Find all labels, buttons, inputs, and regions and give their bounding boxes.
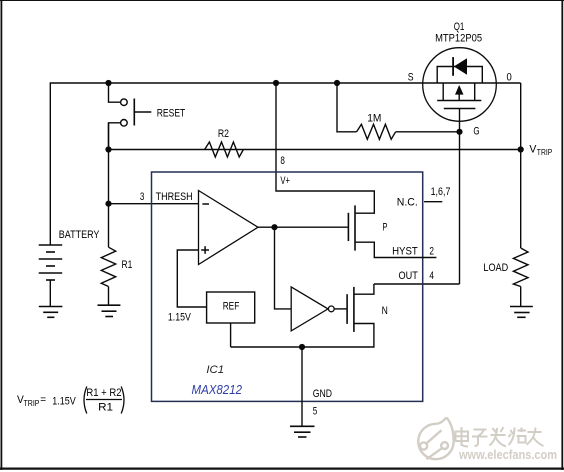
resistor R2 zigzag	[205, 142, 244, 157]
transistor Q1 circle	[423, 48, 497, 122]
transistor P internal	[348, 205, 355, 250]
wire REF to gnd rail	[230, 323, 232, 347]
node G	[456, 129, 462, 135]
svg-text:MAX8212: MAX8212	[192, 382, 243, 397]
svg-text:www.elecfans.com: www.elecfans.com	[458, 448, 557, 462]
svg-text:G: G	[473, 126, 479, 138]
svg-text:BATTERY: BATTERY	[59, 229, 100, 241]
wire P source to HYST	[355, 242, 436, 257]
svg-text:R1 + R2: R1 + R2	[86, 387, 121, 399]
reset switch contact circles	[121, 99, 128, 126]
svg-text:P: P	[383, 222, 388, 234]
wire VTRIP horizontal R2 to LOAD	[109, 149, 521, 151]
wire battery to ground	[49, 280, 51, 306]
comparator minus sign	[202, 203, 209, 205]
svg-text:OUT: OUT	[399, 270, 419, 282]
svg-text:Q1: Q1	[454, 21, 465, 33]
wire OUT pin to gate	[374, 283, 460, 285]
reset switch actuator bar	[133, 99, 135, 126]
node switch top	[105, 80, 111, 86]
IC box MAX8212	[152, 172, 423, 401]
node VTRIP	[518, 146, 524, 152]
N.C. pin stub	[424, 201, 442, 203]
reset switch lower lead	[109, 123, 121, 150]
svg-text:V+: V+	[280, 175, 290, 187]
wire battery+ top rail	[50, 83, 520, 245]
wire VTRIP to LOAD	[520, 150, 522, 249]
svg-text:THRESH: THRESH	[156, 191, 193, 203]
formula VTRIP	[17, 387, 124, 414]
svg-text:1,6,7: 1,6,7	[431, 186, 451, 198]
wire gate vertical G to OUT	[459, 109, 461, 285]
node R2 left	[105, 146, 111, 152]
wire LOAD to ground	[520, 287, 522, 307]
wire left rail THRESH node	[108, 123, 110, 247]
svg-text:GND: GND	[313, 388, 332, 400]
ground GND pin	[290, 426, 315, 437]
wire output to inverter	[275, 227, 292, 309]
svg-text:8: 8	[280, 155, 285, 167]
wire N source to gnd rail	[231, 324, 374, 348]
svg-text:HYST: HYST	[392, 246, 418, 258]
svg-text:N: N	[382, 305, 388, 317]
svg-text:REF: REF	[223, 300, 240, 312]
svg-text:0: 0	[507, 71, 512, 83]
svg-text:S: S	[408, 71, 414, 83]
op-amp U comparator triangle	[199, 191, 259, 265]
wire Q1 drain to VTRIP	[520, 83, 522, 150]
svg-text:1.15V: 1.15V	[52, 396, 76, 408]
REF block	[207, 292, 255, 323]
Q1 body diode	[437, 57, 482, 83]
watermark logo elecfans	[418, 418, 453, 460]
watermark CJK text	[456, 427, 544, 447]
ground LOAD	[510, 307, 533, 318]
svg-text:1M: 1M	[367, 113, 381, 125]
node THRESH	[105, 201, 111, 207]
resistor R1 zigzag	[101, 247, 115, 286]
battery symbol plates	[39, 245, 63, 280]
inverter triangle	[291, 287, 328, 331]
wire N drain to OUT	[354, 284, 374, 294]
ground R1	[98, 305, 121, 316]
svg-text:2: 2	[429, 246, 434, 258]
wire inverter to N gate	[334, 308, 347, 310]
svg-text:4: 4	[429, 270, 434, 282]
svg-text:TRIP: TRIP	[537, 148, 553, 157]
Q1 source arrow	[455, 85, 464, 95]
svg-text:R1: R1	[122, 259, 133, 271]
svg-text:TRIP: TRIP	[24, 399, 40, 408]
transistor N internal	[347, 287, 354, 332]
svg-text:3: 3	[140, 191, 145, 203]
node gnd rail	[299, 344, 305, 350]
svg-text:=: =	[40, 394, 46, 406]
svg-text:5: 5	[313, 406, 318, 418]
svg-text:N.C.: N.C.	[397, 197, 418, 209]
reset switch label lead	[134, 111, 151, 113]
svg-text:IC1: IC1	[206, 364, 224, 376]
svg-text:R1: R1	[98, 402, 113, 414]
reset switch upper lead	[109, 83, 121, 102]
node comparator out	[271, 224, 277, 230]
resistor 1M zigzag	[357, 124, 396, 139]
wire R1 to ground	[108, 287, 110, 305]
comparator plus sign	[201, 246, 209, 254]
wire V+ pin8 drop	[276, 83, 374, 213]
wire 1M to gate node G	[396, 131, 460, 133]
Q1 mosfet body	[437, 83, 481, 109]
svg-text:R2: R2	[218, 128, 229, 140]
svg-text:MTP12P05: MTP12P05	[435, 32, 482, 44]
wire comparator plus input	[177, 250, 206, 307]
svg-text:RESET: RESET	[157, 107, 186, 119]
node 1M rail	[334, 80, 340, 86]
wire GND pin5 drop	[301, 347, 303, 426]
wire comparator output	[258, 226, 348, 228]
resistor LOAD zigzag	[513, 248, 528, 287]
svg-text:LOAD: LOAD	[483, 262, 508, 274]
node V+ rail	[273, 80, 279, 86]
inverter bubble	[328, 306, 334, 312]
wire THRESH to comparator	[109, 203, 199, 205]
wire 1M drop	[337, 83, 357, 132]
svg-text:1.15V: 1.15V	[168, 312, 192, 324]
ground battery	[39, 307, 63, 318]
